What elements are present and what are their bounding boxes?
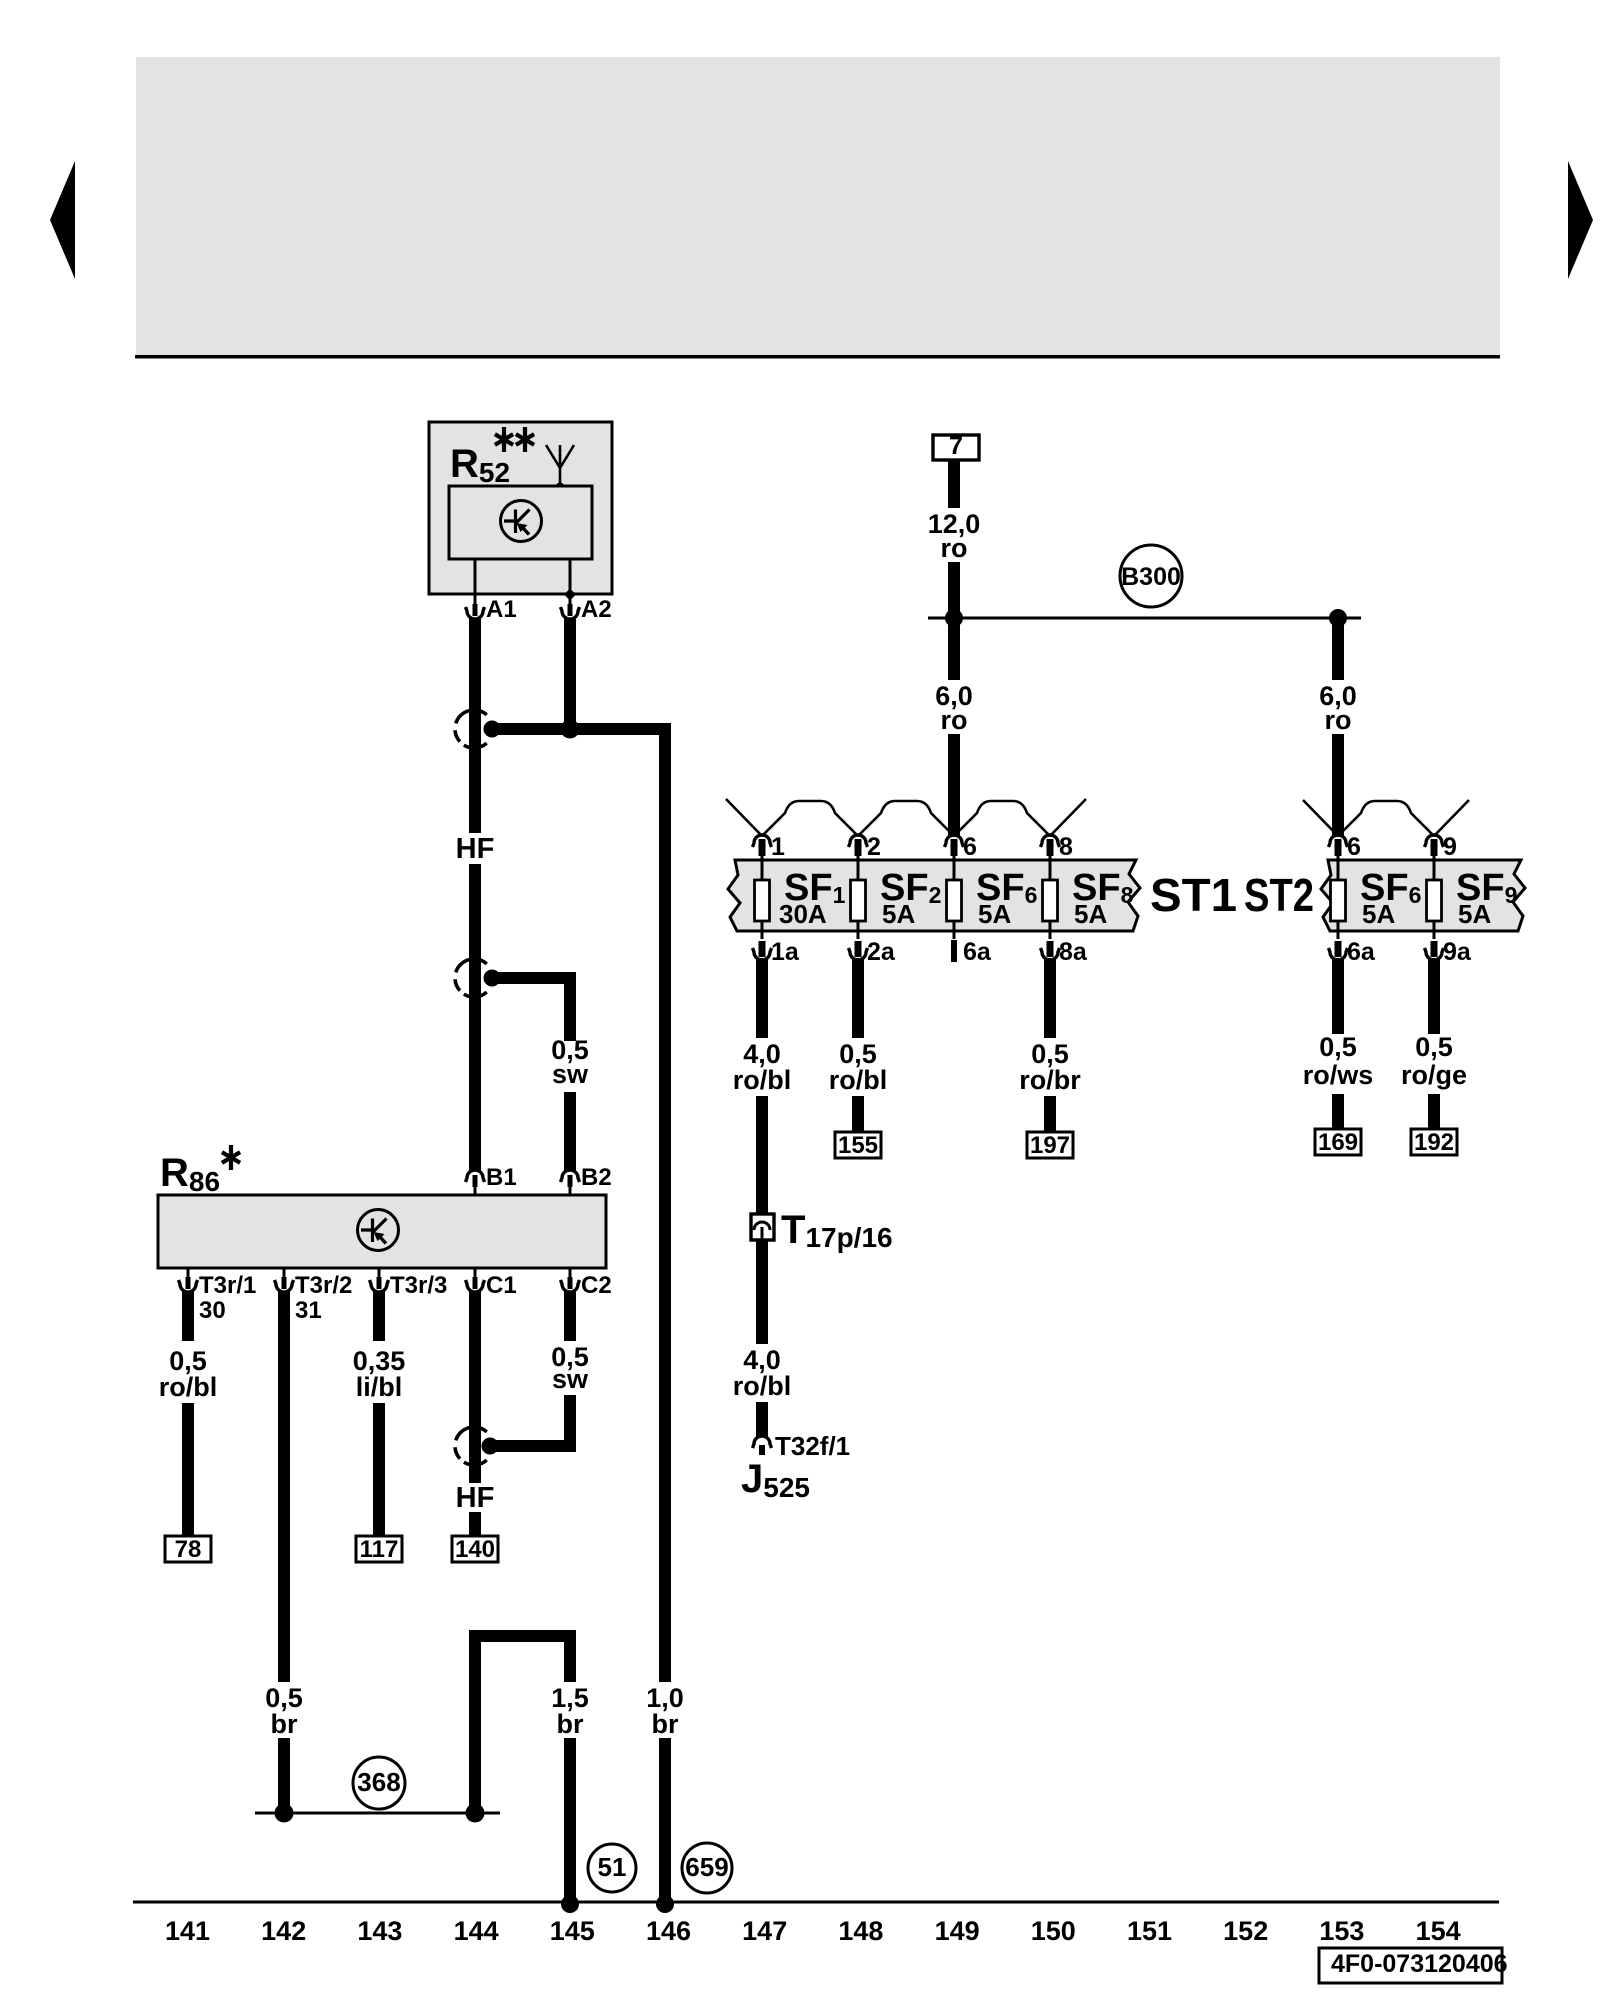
amplifier circle symbol in R86 [358, 1210, 399, 1251]
svg-text:151: 151 [1127, 1916, 1172, 1946]
amplifier circle symbol in R52 [501, 501, 542, 542]
svg-text:144: 144 [454, 1916, 499, 1946]
svg-text:ro: ro [941, 705, 968, 735]
svg-text:5A: 5A [1458, 899, 1491, 929]
pin T32f/1 of J525 [753, 1436, 772, 1448]
svg-text:ro/br: ro/br [1019, 1065, 1081, 1095]
svg-text:1: 1 [771, 833, 785, 861]
svg-text:9: 9 [1443, 833, 1457, 861]
junction dot track144 [466, 1804, 485, 1823]
svg-text:6: 6 [1347, 833, 1361, 861]
junction line B300 [928, 617, 1361, 620]
svg-text:192: 192 [1414, 1129, 1454, 1156]
svg-text:J525: J525 [741, 1457, 810, 1503]
svg-text:A2: A2 [581, 596, 612, 623]
svg-text:9a: 9a [1443, 938, 1472, 966]
diagram number box [1319, 1948, 1502, 1983]
junction dot screen tap [484, 721, 501, 738]
wire T3r/1 0,5 ro/bl to ground 78 [182, 1291, 194, 1341]
svg-text:1a: 1a [771, 938, 800, 966]
svg-text:143: 143 [357, 1916, 402, 1946]
wire T3r/3 0,35 li/bl to ground 117 [373, 1291, 385, 1341]
pin 6 of ST2 [1335, 839, 1342, 856]
svg-text:sw: sw [552, 1364, 589, 1394]
svg-text:78: 78 [175, 1536, 202, 1563]
selector curves above ST1 [726, 799, 762, 836]
svg-text:150: 150 [1031, 1916, 1076, 1946]
pin 1 of ST1 [759, 839, 766, 856]
svg-text:8: 8 [1059, 833, 1073, 861]
screen tap wire to B2 [491, 972, 576, 984]
svg-text:30A: 30A [779, 899, 827, 929]
svg-text:li/bl: li/bl [356, 1372, 403, 1402]
svg-text:5A: 5A [1074, 899, 1107, 929]
wire bridge track144 to track145 1,5 br [475, 1636, 570, 1813]
junction dot left [945, 609, 963, 627]
current track numbers [165, 1916, 1461, 1946]
svg-text:142: 142 [261, 1916, 306, 1946]
junction diamond at A2 [564, 589, 576, 601]
pin T3r/2 [283, 1268, 286, 1277]
junction dot screen tap 2 [484, 970, 501, 987]
ground connection 78 [165, 1536, 211, 1562]
screening symbol on wire C1 [455, 1427, 487, 1465]
svg-text:152: 152 [1223, 1916, 1268, 1946]
component R52 (aerial amplifier) outer box [429, 422, 612, 594]
pin 2 of ST1 [855, 839, 862, 856]
fuse SF1 30A [761, 851, 764, 939]
svg-text:146: 146 [646, 1916, 691, 1946]
svg-text:5A: 5A [1362, 899, 1395, 929]
ground connection 155 [835, 1132, 881, 1158]
svg-text:B2: B2 [581, 1164, 612, 1191]
fuse panel ST2 [1321, 860, 1525, 931]
svg-text:7: 7 [949, 432, 963, 460]
svg-text:T17p/16: T17p/16 [781, 1208, 893, 1253]
svg-text:ro/bl: ro/bl [829, 1065, 888, 1095]
svg-text:141: 141 [165, 1916, 210, 1946]
pin 1a of ST1 [759, 941, 766, 957]
pin A1 [474, 595, 477, 604]
terminal 7 box [933, 435, 979, 460]
svg-text:ro/ge: ro/ge [1401, 1060, 1467, 1090]
fuse SF9 5A (ST2) [1433, 851, 1436, 939]
svg-text:5A: 5A [978, 899, 1011, 929]
junction dot right [1329, 609, 1347, 627]
wire 12,0 ro [948, 460, 960, 508]
fuse SF6 5A (ST2) [1337, 851, 1340, 939]
svg-text:ST2: ST2 [1244, 869, 1314, 921]
svg-text:ST1: ST1 [1150, 869, 1237, 921]
svg-text:155: 155 [838, 1132, 878, 1159]
wire A1 HF (antenna coax) down to B1 [469, 618, 481, 833]
svg-text:ro/ws: ro/ws [1303, 1060, 1374, 1090]
pin B1 [474, 1187, 477, 1195]
screening symbol 2 on wire A1 [455, 959, 487, 997]
pin T3r/3 [378, 1268, 381, 1277]
node 51 [588, 1844, 636, 1892]
svg-text:6a: 6a [963, 938, 992, 966]
svg-text:A1: A1 [486, 596, 517, 623]
pin 6a of ST2 [1335, 941, 1342, 957]
svg-text:R86: R86 [160, 1151, 220, 1197]
svg-text:br: br [652, 1709, 679, 1739]
R52 inner unit box [449, 486, 592, 559]
svg-text:2a: 2a [867, 938, 896, 966]
svg-text:153: 153 [1319, 1916, 1364, 1946]
junction dot track142 [275, 1804, 294, 1823]
pin 8 of ST1 [1047, 839, 1054, 856]
svg-text:5A: 5A [882, 899, 915, 929]
pin 9a of ST2 [1431, 941, 1438, 957]
fuse SF6 5A [953, 851, 956, 939]
screen tap wire to track 146 [491, 723, 671, 735]
pin 2a of ST1 [855, 941, 862, 957]
svg-text:ro: ro [941, 533, 968, 563]
pin 6a of ST1 [951, 940, 957, 962]
connector T17p/16 [751, 1214, 774, 1240]
svg-text:T3r/1: T3r/1 [199, 1272, 256, 1299]
pin 9 of ST2 [1431, 839, 1438, 856]
svg-text:HF: HF [456, 1482, 495, 1514]
svg-text:368: 368 [357, 1767, 400, 1797]
svg-text:0,5: 0,5 [1415, 1032, 1453, 1062]
ground connection 197 [1027, 1132, 1073, 1158]
R52 pin leads [475, 559, 570, 595]
svg-text:145: 145 [550, 1916, 595, 1946]
svg-text:T32f/1: T32f/1 [775, 1431, 850, 1461]
antenna symbol [546, 445, 574, 487]
ground connection 169 [1315, 1129, 1361, 1155]
header bar [136, 57, 1500, 355]
node 659 [682, 1843, 732, 1893]
svg-text:C1: C1 [486, 1272, 517, 1299]
pin A2 [569, 595, 572, 604]
ground connection 140 [452, 1536, 498, 1562]
node B300 [1120, 545, 1182, 607]
svg-text:ro/bl: ro/bl [733, 1371, 792, 1401]
svg-text:140: 140 [455, 1536, 495, 1563]
svg-text:ro: ro [1325, 705, 1352, 735]
wire C2 0,5 sw to screen of C1 [564, 1291, 576, 1341]
junction dot C2 tap [482, 1438, 499, 1455]
screening symbol on wire A1 [455, 710, 487, 748]
svg-text:ro/bl: ro/bl [733, 1065, 792, 1095]
wire ST2/SF9 output 0,5 ro/ge to ground 192 [1428, 958, 1440, 1034]
junction dot track145 at earth rail [561, 1895, 579, 1913]
node 368 [353, 1757, 405, 1809]
fuse SF8 5A [1049, 851, 1052, 939]
current track rail [133, 1901, 1499, 1904]
svg-text:147: 147 [742, 1916, 787, 1946]
nav arrow left [50, 161, 75, 279]
svg-text:117: 117 [360, 1536, 399, 1563]
pin T3r/1 [187, 1268, 190, 1277]
wire SF2 output 0,5 ro/bl to ground 155 [852, 958, 864, 1038]
svg-text:154: 154 [1416, 1916, 1461, 1946]
svg-text:2: 2 [867, 833, 881, 861]
svg-text:197: 197 [1030, 1132, 1070, 1159]
svg-text:HF: HF [456, 833, 495, 865]
svg-text:T3r/3: T3r/3 [390, 1272, 447, 1299]
svg-text:6: 6 [963, 833, 977, 861]
svg-text:0,5: 0,5 [1319, 1032, 1357, 1062]
ground connection 117 [356, 1536, 402, 1562]
junction line 368 [255, 1812, 500, 1815]
junction dot track146 at earth rail [656, 1895, 674, 1913]
pin C1 [474, 1268, 477, 1277]
svg-text:T3r/2: T3r/2 [295, 1272, 352, 1299]
svg-text:6a: 6a [1347, 938, 1376, 966]
svg-text:169: 169 [1318, 1129, 1358, 1156]
ground connection 192 [1411, 1129, 1457, 1155]
fuse panel ST1 [728, 860, 1140, 931]
wire 6,0 ro left [948, 618, 960, 680]
nav arrow right [1568, 161, 1593, 279]
wire 4,0 ro/bl to J525 [756, 1240, 768, 1344]
svg-text:30: 30 [199, 1297, 226, 1324]
svg-text:4F0-073120406: 4F0-073120406 [1331, 1950, 1508, 1978]
svg-text:br: br [271, 1709, 298, 1739]
pin C2 [569, 1268, 572, 1277]
wire SF8 output 0,5 ro/br to ground 197 [1044, 958, 1056, 1038]
selector curves above ST2 [1303, 800, 1338, 836]
svg-text:51: 51 [598, 1852, 627, 1882]
svg-text:148: 148 [838, 1916, 883, 1946]
svg-text:31: 31 [295, 1297, 322, 1324]
svg-text:8a: 8a [1059, 938, 1088, 966]
svg-text:B1: B1 [486, 1164, 517, 1191]
wire SF1 output 4,0 ro/bl [756, 958, 768, 1038]
svg-text:B300: B300 [1121, 563, 1181, 591]
wire ST2/SF6 output 0,5 ro/ws to ground 169 [1332, 958, 1344, 1034]
pin 8a of ST1 [1047, 941, 1054, 957]
svg-text:C2: C2 [581, 1272, 612, 1299]
pin B2 [569, 1187, 572, 1195]
svg-text:br: br [557, 1709, 584, 1739]
junction dot A2/tap [561, 720, 580, 739]
svg-text:149: 149 [935, 1916, 980, 1946]
wire C1 HF to ground 140 [469, 1291, 481, 1483]
svg-text:sw: sw [552, 1059, 589, 1089]
wire T3r/2 31 down [278, 1291, 290, 1682]
wire A2 down [564, 618, 576, 735]
component R86 (aerial amplifier) box [158, 1195, 606, 1268]
wire 6,0 ro right [1332, 618, 1344, 680]
svg-text:ro/bl: ro/bl [159, 1372, 218, 1402]
fuse SF2 5A [857, 851, 860, 939]
svg-text:659: 659 [685, 1852, 728, 1882]
pin 6 of ST1 [951, 839, 958, 856]
